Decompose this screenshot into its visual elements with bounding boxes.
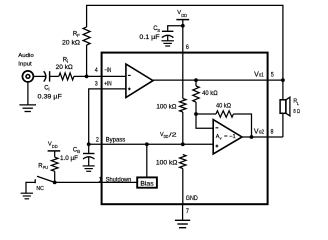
wire U2 output Vo2 to speaker (242, 136, 283, 138)
IC box (amplifier block) (102, 53, 268, 205)
svg-text:3: 3 (95, 81, 98, 88)
switch contact post (34, 179, 36, 183)
resistor RF 20 kOhm (83, 27, 90, 45)
wire shutdown to pin 1 / bias (55, 181, 138, 183)
resistor 40 kOhm (vertical) (193, 86, 199, 102)
wire op2 -in (196, 114, 213, 128)
svg-text:Bypass: Bypass (106, 137, 126, 144)
junction dot op2 out/feedback (250, 135, 254, 139)
svg-text:/2: /2 (169, 132, 176, 138)
ground (input jack) (19, 105, 36, 112)
svg-text:v: v (220, 135, 222, 140)
svg-text:i: i (49, 87, 50, 92)
junction dot U1 out / 40k (194, 78, 198, 82)
svg-text:F: F (77, 33, 80, 38)
svg-text:20 kΩ: 20 kΩ (56, 64, 74, 71)
wire switch to ground (26, 182, 35, 193)
wire CS to ground (167, 35, 169, 40)
VDD supply (top) (176, 10, 189, 19)
node VDD/CS junction dot (181, 24, 185, 28)
svg-text:o2: o2 (259, 129, 264, 135)
wire jack to ground (27, 82, 29, 105)
svg-text:0.1 µF: 0.1 µF (139, 34, 160, 41)
svg-text:Input: Input (18, 61, 32, 67)
wire VDD down to pin 6 and divider (182, 20, 184, 99)
svg-text:4: 4 (95, 67, 98, 74)
audio input jack (22, 71, 33, 82)
wire speaker to Vo2 (282, 113, 284, 137)
junction dot RPU/switch/shutdown (53, 181, 57, 185)
svg-text:40 kΩ: 40 kΩ (216, 103, 231, 110)
node A junction dot (Ri/RF/-IN) (85, 75, 89, 79)
ground (switch) (21, 193, 33, 199)
junction dot bypass/bias (145, 142, 149, 146)
svg-text:DD: DD (164, 134, 169, 139)
resistor 40 kOhm (horizontal feedback) (216, 111, 233, 117)
svg-text:o1: o1 (259, 73, 264, 79)
svg-text:= −1: = −1 (224, 134, 236, 140)
ground (pin 7) (175, 220, 190, 227)
svg-text:PU: PU (43, 165, 48, 170)
speaker RL 8 Ohm (280, 97, 290, 116)
VDD supply (RPU) (48, 141, 61, 151)
ground (CB) (83, 166, 95, 171)
wire +IN pin 3 to bypass node (89, 89, 126, 144)
wire pin 7 to ground (182, 204, 184, 220)
svg-text:5: 5 (271, 71, 274, 78)
svg-text:GND: GND (186, 195, 198, 202)
wire Ri to -IN (pin 4) (74, 75, 126, 77)
wire 40k node to 40k horiz (196, 113, 216, 115)
svg-text:DD: DD (181, 13, 187, 18)
wire out to 40k (195, 80, 197, 86)
resistor RPU (54, 151, 56, 157)
feedback wire RF to Vo1 (87, 5, 283, 80)
wire jack to Ci (34, 75, 46, 77)
op-amp U2 Av=-1 (213, 120, 242, 154)
bypass rail VDD/2 (89, 143, 214, 145)
svg-text:NC: NC (36, 186, 43, 192)
ground (CS) (161, 41, 174, 46)
junction dot 40k/40k/op2- (194, 112, 198, 116)
resistor Ri 20 kOhm (59, 73, 74, 80)
svg-text:8 Ω: 8 Ω (293, 109, 300, 115)
switch lever (37, 176, 55, 182)
svg-text:100 kΩ: 100 kΩ (156, 160, 178, 167)
op-amp U1 (126, 64, 153, 98)
svg-text:1.0 µF: 1.0 µF (60, 155, 78, 162)
svg-text:DD: DD (52, 144, 58, 149)
wire bias riser (146, 144, 148, 177)
resistor 100 kOhm (lower) (180, 155, 186, 169)
svg-text:40 kΩ: 40 kΩ (202, 90, 218, 97)
wire Ci to Ri (50, 75, 59, 77)
bias block (137, 177, 157, 187)
resistor 100 kOhm (upper) (180, 99, 186, 113)
svg-text:Audio: Audio (18, 53, 33, 59)
wire U1 output to Vo1 pin 5 and speaker (153, 79, 283, 81)
svg-text:Bias: Bias (140, 181, 153, 187)
capacitor Ci 0.39 uF (44, 71, 50, 81)
wire Vo1 node down to speaker (282, 80, 284, 100)
junction dot VDD/2 divider (181, 142, 185, 146)
svg-text:S: S (157, 28, 160, 33)
junction dot Vo1/feedback/speaker (281, 78, 285, 82)
svg-text:20 kΩ: 20 kΩ (62, 39, 80, 46)
svg-text:0.39 µF: 0.39 µF (38, 93, 63, 100)
wire 40k to Vo2 (233, 114, 251, 137)
junction dot bypass/CB (87, 142, 91, 146)
svg-text:8: 8 (271, 128, 274, 135)
svg-text:100 kΩ: 100 kΩ (156, 104, 177, 111)
capacitor CS 0.1 uF (162, 31, 174, 37)
svg-text:−IN: −IN (104, 67, 111, 74)
svg-text:+IN: +IN (104, 81, 111, 88)
capacitor CB 1.0 uF (83, 154, 95, 160)
wire VDD node to CS (168, 26, 183, 32)
wire node A up to RF (86, 45, 88, 76)
svg-text:B: B (77, 149, 80, 154)
svg-text:2: 2 (96, 136, 99, 143)
wire bypass node to CB (88, 144, 90, 153)
